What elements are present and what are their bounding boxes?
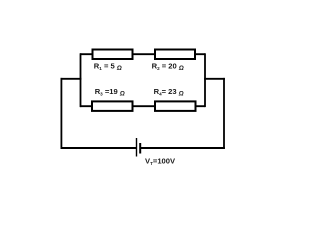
resistor R4: [155, 101, 196, 111]
wire bottom left segment: [61, 147, 137, 149]
wire right tap horizontal: [204, 78, 225, 80]
wire inner right vertical: [204, 53, 206, 107]
resistor R3: [92, 101, 133, 111]
resistor R2: [155, 50, 195, 60]
battery VT negative plate: [139, 143, 141, 154]
resistor R1: [93, 50, 133, 60]
svg-text:VT=100V: VT=100V: [145, 157, 176, 166]
wire outer left vertical: [60, 78, 62, 149]
wire bottom branch: [80, 105, 205, 107]
wire bottom right segment: [140, 147, 225, 149]
wire inner left vertical: [80, 53, 82, 107]
wire outer right vertical: [223, 78, 225, 149]
wire left tap horizontal: [61, 78, 82, 80]
wire top branch: [80, 53, 205, 55]
battery VT positive plate: [136, 138, 138, 157]
